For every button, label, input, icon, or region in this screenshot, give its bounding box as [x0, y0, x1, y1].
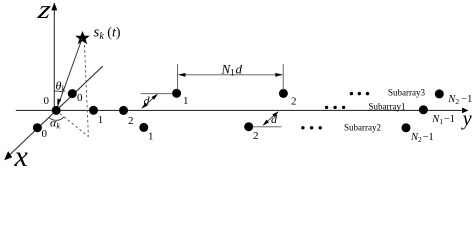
lower d extension line [252, 126, 282, 128]
N1d dimension ticks [177, 64, 179, 90]
svg-text:0: 0 [44, 95, 50, 107]
subarray3 last element N2-1 [435, 89, 444, 98]
svg-text:d: d [144, 94, 151, 108]
subarray1 element 2 [119, 106, 128, 115]
svg-text:1: 1 [98, 114, 104, 126]
subarray3 element 0 [68, 89, 77, 98]
subarray3 element 2 [279, 89, 288, 98]
signal source star s_k(t) [77, 33, 88, 43]
svg-text:1: 1 [183, 95, 189, 107]
svg-text:N2−1: N2−1 [410, 132, 434, 144]
y-axis [16, 108, 469, 114]
upper d arrow [143, 95, 156, 107]
svg-text:2: 2 [128, 115, 134, 127]
x-axis [4, 66, 102, 160]
dashed vertical from star to projection point P [85, 45, 89, 137]
subarray1 element 0 (origin) [52, 106, 61, 115]
svg-text:Subarray3: Subarray3 [388, 88, 425, 98]
svg-text:x: x [14, 140, 29, 167]
subarray1 last element N1-1 [419, 105, 428, 114]
z-axis [51, 2, 57, 110]
svg-text:Subarray1: Subarray1 [369, 101, 406, 111]
theta_k arc [54, 91, 63, 92]
svg-text:0: 0 [42, 128, 48, 140]
svg-text:2: 2 [253, 130, 259, 142]
dashed projection line origin->P [56, 110, 88, 136]
subarray3 ellipsis [350, 92, 370, 95]
alpha_k arc [49, 117, 64, 120]
lower d arrow [264, 113, 277, 124]
subarray2 ellipsis [301, 126, 322, 129]
svg-text:sk (t): sk (t) [94, 25, 121, 43]
subarray1 ellipsis [325, 106, 345, 109]
N1d dimension arrow line [179, 74, 282, 76]
svg-text:0: 0 [77, 92, 83, 104]
arrowhead at origin [57, 99, 61, 106]
svg-text:Subarray2: Subarray2 [344, 123, 381, 133]
subarray3 element 1 [172, 89, 181, 98]
subarray2 element 1 [139, 123, 148, 132]
subarray2 element 0 [33, 123, 42, 132]
svg-text:2: 2 [291, 96, 297, 108]
subarray2 element 2 [244, 122, 253, 131]
svg-text:1: 1 [148, 131, 154, 143]
svg-text:N1−1: N1−1 [431, 114, 455, 126]
subarray2 last element N2-1 [402, 123, 411, 132]
incoming signal line star->origin [58, 38, 83, 107]
subarray1 element 1 [89, 106, 98, 115]
svg-text:d: d [271, 112, 278, 126]
svg-text:y: y [461, 108, 472, 130]
upper d extension line [141, 93, 173, 95]
